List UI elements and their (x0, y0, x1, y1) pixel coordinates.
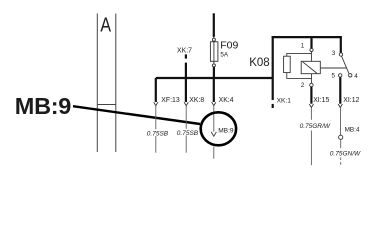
pin 2 terminal circle (310, 83, 313, 86)
relay switch contact 3-4 (342, 56, 349, 73)
pin 3 terminal circle (339, 53, 342, 56)
wire: supply feed from top (213, 13, 215, 36)
wire: coil output to switch (320, 67, 346, 69)
wire: below splice (340, 140, 342, 149)
wire: XK:1 stub below bus (272, 78, 274, 100)
label wire colour 0.75SB (right) (177, 129, 197, 136)
svg-text:XK:4: XK:4 (219, 97, 234, 104)
wire: callout pointer line to ground ellipse (73, 106, 200, 124)
ground arrow inside ellipse (211, 132, 216, 136)
svg-text:F09: F09 (220, 40, 238, 52)
svg-text:2: 2 (301, 82, 305, 89)
label wire colour 0.75SB (left) (147, 129, 168, 136)
svg-text:XK:7: XK:7 (177, 47, 192, 54)
ground ellipse MB:9 (201, 112, 236, 145)
fuse F09 element wire through body (213, 41, 215, 64)
svg-text:MB:9: MB:9 (15, 93, 71, 119)
wire: XK:7 stub dash (185, 54, 187, 58)
wire: relay left edge up from bus (272, 36, 274, 78)
svg-text:XI:12: XI:12 (343, 97, 359, 104)
svg-text:XI:15: XI:15 (313, 97, 329, 104)
svg-text:MB:9: MB:9 (218, 127, 234, 134)
svg-text:A: A (100, 14, 111, 36)
svg-text:XK:1: XK:1 (277, 97, 292, 104)
wire: XF:13 drop from bus (155, 78, 157, 102)
svg-text:0.75SB: 0.75SB (177, 130, 199, 137)
relay coil diagonal (303, 62, 317, 74)
svg-text:XF:13: XF:13 (161, 97, 180, 104)
svg-text:5A: 5A (220, 52, 229, 59)
wire: resistor bottom link (287, 73, 312, 79)
svg-text:0.75SB: 0.75SB (147, 130, 169, 137)
wire: pin 1 drop (310, 37, 312, 48)
wire: frame line left (96, 14, 98, 153)
svg-text:0.75GN/W: 0.75GN/W (330, 151, 361, 158)
wire: dashed continuation (340, 158, 342, 167)
wire: XF:13 lower wire (155, 106, 157, 153)
svg-text:4: 4 (354, 73, 358, 80)
arrowhead at fuse top (212, 36, 215, 39)
wire: frame line right (115, 14, 117, 153)
wire: pin1 to coil (311, 52, 313, 61)
svg-text:3: 3 (332, 50, 336, 57)
connector arrow XF:13 (154, 102, 158, 105)
pin 5 terminal circle (339, 74, 342, 77)
wire: XK:1 continuation dash (272, 104, 274, 108)
wire: horizontal bus (156, 77, 273, 79)
connector arrow XK:8 (184, 102, 188, 105)
wire: pin 2 down to XI:15 connector (310, 87, 312, 104)
wire: below ellipse (213, 147, 215, 159)
wire: XI:15 lower wire (cont.) (310, 131, 312, 166)
wire: resistor top link (287, 53, 312, 56)
svg-text:0.75GR/W: 0.75GR/W (300, 123, 331, 130)
wire: fuse bottom to bus (213, 67, 215, 79)
wire: XK:4 drop (below fuse) continues through bus (213, 79, 215, 102)
svg-text:MB:4: MB:4 (345, 126, 360, 133)
svg-text:1: 1 (301, 43, 305, 50)
wire: pin 5 down to XI:12 connector (339, 77, 341, 103)
wire: relay top edge (272, 36, 342, 38)
wire: coil to pin2 (311, 74, 313, 84)
wire: XK:4 lower wire into ground ellipse (213, 106, 215, 132)
fuse F09 body (210, 42, 218, 62)
wire: XK:7 drop to bus, continues to XK:8 arrow (185, 63, 187, 102)
wire: XI:15 lower wire (310, 108, 312, 120)
svg-text:5: 5 (332, 73, 336, 80)
wire: XI:12 lower wire (340, 108, 342, 135)
wire: pin 3 drop (340, 37, 342, 53)
fuse F09 top terminal circle (212, 38, 215, 41)
relay coil K08 (301, 61, 320, 73)
fuse F09 bottom terminal circle (212, 64, 215, 67)
svg-text:XK:8: XK:8 (189, 97, 204, 104)
connector arrow XK:4 (212, 102, 216, 105)
splice node MB:4 (339, 135, 343, 139)
wire: frame rung (97, 104, 116, 106)
relay resistor body (284, 56, 291, 72)
pin 1 terminal circle (310, 48, 313, 51)
pin 4 terminal circle (349, 74, 352, 77)
connector arrow XI:15 (309, 104, 313, 108)
wire: XK:8 lower wire (185, 106, 187, 153)
svg-text:K08: K08 (249, 57, 269, 69)
connector arrow XI:12 (338, 104, 342, 108)
